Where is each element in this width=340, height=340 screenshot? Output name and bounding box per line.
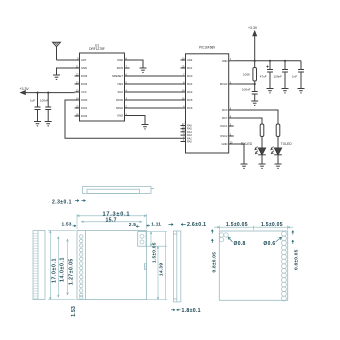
wire RC7 to RXLED resistor xyxy=(234,118,262,124)
svg-text:+3.3V: +3.3V xyxy=(20,87,30,91)
connector holes xyxy=(140,234,144,244)
wire NSS U1-U2 xyxy=(130,83,181,85)
svg-text:1.53: 1.53 xyxy=(71,306,77,317)
svg-text:15.7: 15.7 xyxy=(106,218,117,224)
svg-text:100nF: 100nF xyxy=(40,98,49,102)
svg-text:1.11: 1.11 xyxy=(151,221,161,227)
capacitor C3 100nF xyxy=(242,84,258,101)
svg-text:OSC2: OSC2 xyxy=(220,134,228,138)
left dimension 0.8±0.05 xyxy=(211,230,213,244)
svg-text:AN2: AN2 xyxy=(187,58,193,62)
right dimension 0.8±0.05 xyxy=(292,231,294,245)
svg-text:DIO1: DIO1 xyxy=(81,106,88,110)
svg-text:1.5±0.05: 1.5±0.05 xyxy=(261,222,283,228)
U2 left pin names xyxy=(187,58,193,110)
U2 right pin stubs xyxy=(229,61,234,144)
svg-text:RC2: RC2 xyxy=(187,90,193,94)
dimension 17.3±0.1 xyxy=(77,214,147,229)
wire NRESET U1-U2 xyxy=(130,75,181,77)
U2 right pin names xyxy=(220,59,228,146)
antenna connector xyxy=(138,232,146,247)
top-left corner holes xyxy=(219,233,228,242)
capacitor C4 47uF xyxy=(260,61,273,89)
wire SCK U1-U2 xyxy=(130,91,181,93)
PCB outline xyxy=(77,231,147,300)
ground xyxy=(251,101,258,105)
ground xyxy=(140,68,147,72)
svg-text:2.6±0.1: 2.6±0.1 xyxy=(187,222,206,228)
resistor R1 100K xyxy=(243,61,257,84)
svg-text:VDD: VDD xyxy=(222,59,228,63)
svg-text:100nF: 100nF xyxy=(242,88,251,92)
wire U1 GND pin1 to ground xyxy=(130,116,146,125)
right column holes xyxy=(281,231,286,301)
svg-text:1uF: 1uF xyxy=(30,98,35,102)
svg-text:GND: GND xyxy=(117,114,123,118)
svg-text:1.53: 1.53 xyxy=(62,221,72,227)
svg-text:14.39: 14.39 xyxy=(159,263,165,276)
svg-text:DIO3: DIO3 xyxy=(81,74,88,78)
node VDD junction dots xyxy=(254,60,256,62)
svg-text:Ø0.8: Ø0.8 xyxy=(234,241,246,247)
wire RC0 to TXLED resistor xyxy=(234,110,278,124)
svg-text:RA0: RA0 xyxy=(187,141,192,144)
wire DIO0 to RA2 xyxy=(65,100,181,138)
svg-text:RC6: RC6 xyxy=(187,106,193,110)
wire U2 GND pin20 to ground xyxy=(234,144,244,164)
castellated holes left column xyxy=(79,235,83,299)
svg-text:DIO5: DIO5 xyxy=(117,66,124,70)
ground xyxy=(142,125,149,129)
LED D2 TXLED xyxy=(271,137,293,165)
capacitor C1 1uF xyxy=(30,93,41,122)
U1 left pin numbers xyxy=(76,57,79,116)
U1 right pin stubs xyxy=(125,60,130,116)
wire ANT to U1 xyxy=(57,59,75,61)
svg-text:RC5: RC5 xyxy=(187,98,193,102)
svg-text:14.0±0.1: 14.0±0.1 xyxy=(59,257,65,282)
svg-text:GND: GND xyxy=(117,58,123,62)
svg-text:MCLR: MCLR xyxy=(220,82,228,86)
small slot on right edge xyxy=(144,264,146,270)
svg-text:DIO0: DIO0 xyxy=(81,98,88,102)
wire MISO U1-U2 xyxy=(130,107,181,109)
svg-text:RC4: RC4 xyxy=(187,82,193,86)
svg-text:Ø0.6: Ø0.6 xyxy=(263,241,275,247)
top dimension 1.5±0.05 pair xyxy=(214,226,293,231)
wire U1 GND pin8 to ground xyxy=(130,60,144,68)
svg-text:GND: GND xyxy=(81,66,87,70)
svg-text:DIO4: DIO4 xyxy=(81,82,88,86)
U1 right pin numbers xyxy=(126,57,128,116)
ground xyxy=(275,164,282,168)
svg-text:RC7: RC7 xyxy=(222,116,228,120)
dimension 15.7 xyxy=(81,221,142,223)
svg-text:1.5±0.05: 1.5±0.05 xyxy=(226,222,248,228)
ground xyxy=(53,75,60,79)
svg-text:17.0±0.1: 17.0±0.1 xyxy=(51,258,57,283)
svg-text:100K: 100K xyxy=(243,73,250,77)
ground xyxy=(259,164,266,168)
resistor R2 xyxy=(276,124,280,137)
ground xyxy=(282,89,289,93)
power +3.3V left xyxy=(20,87,75,95)
wire MOSI U1-U2 xyxy=(130,99,181,101)
svg-text:ANT: ANT xyxy=(81,58,87,62)
ladder pads xyxy=(33,234,38,299)
IC U2 PIC16F689 xyxy=(186,45,229,153)
svg-text:0.8±0.05: 0.8±0.05 xyxy=(294,249,300,270)
wire VDD rail xyxy=(234,60,301,62)
svg-text:TXLED: TXLED xyxy=(281,142,292,146)
svg-text:47uF: 47uF xyxy=(260,75,267,79)
right vertical dimensions xyxy=(146,232,167,300)
ground xyxy=(298,89,305,93)
svg-text:MISO: MISO xyxy=(116,106,123,110)
svg-text:PIC16F689: PIC16F689 xyxy=(199,45,215,49)
node VCC junction 2 xyxy=(47,92,49,94)
power +3.3V top xyxy=(248,26,258,61)
wire MCLR xyxy=(234,83,255,85)
svg-text:NRESET: NRESET xyxy=(112,74,123,78)
resistor R3 xyxy=(260,124,264,137)
svg-text:RC0: RC0 xyxy=(222,108,228,112)
svg-text:VCC: VCC xyxy=(81,90,87,94)
LED D1 RXLED xyxy=(241,137,266,165)
U2 left pin stubs xyxy=(181,60,186,142)
node VCC junction 1 xyxy=(36,92,38,94)
capacitor C2 100nF xyxy=(40,93,51,122)
svg-text:0.8±0.05: 0.8±0.05 xyxy=(211,252,217,273)
svg-text:RC1: RC1 xyxy=(187,66,193,70)
U1 right pin names xyxy=(112,58,123,118)
ground xyxy=(45,122,52,126)
dimension 1.8±0.1 xyxy=(171,308,201,314)
svg-text:DRF1278F: DRF1278F xyxy=(89,47,105,51)
svg-text:1.8±0.1: 1.8±0.1 xyxy=(182,308,201,314)
U1 left pin stubs xyxy=(75,60,80,116)
svg-text:NSS: NSS xyxy=(117,82,123,86)
antenna ANT1 xyxy=(53,42,61,60)
IC U1 xyxy=(80,43,125,121)
capacitor C6 1nF xyxy=(292,61,304,89)
svg-text:+3.3V: +3.3V xyxy=(248,26,258,30)
svg-text:2.3±0.1: 2.3±0.1 xyxy=(52,200,72,206)
svg-text:1.27±0.05: 1.27±0.05 xyxy=(68,258,74,285)
svg-text:RC3: RC3 xyxy=(187,74,193,78)
U1 left pin names xyxy=(81,58,88,118)
ground xyxy=(34,122,41,126)
svg-text:DIO2: DIO2 xyxy=(81,114,88,118)
capacitor C5 100nF xyxy=(274,61,289,89)
ground xyxy=(267,89,274,93)
ground xyxy=(241,164,248,168)
svg-text:1nF: 1nF xyxy=(292,75,297,79)
U2 right pin numbers xyxy=(230,58,233,144)
svg-text:OSC1: OSC1 xyxy=(220,124,228,128)
svg-text:1.5±0.05: 1.5±0.05 xyxy=(152,242,158,263)
svg-text:GND: GND xyxy=(222,142,228,146)
svg-text:SCK: SCK xyxy=(117,90,123,94)
svg-text:2.5: 2.5 xyxy=(129,222,136,228)
hole column separator xyxy=(84,231,86,300)
left vertical dimensions xyxy=(48,231,76,300)
svg-text:MOSI: MOSI xyxy=(116,98,123,102)
U2 left pin numbers xyxy=(182,57,185,142)
svg-text:100nF: 100nF xyxy=(274,75,283,79)
wire U1 GND pin11 to ground xyxy=(57,68,75,75)
dimension 2.6±0.1 xyxy=(169,222,207,228)
dimension 2.3±0.1 xyxy=(52,200,86,206)
